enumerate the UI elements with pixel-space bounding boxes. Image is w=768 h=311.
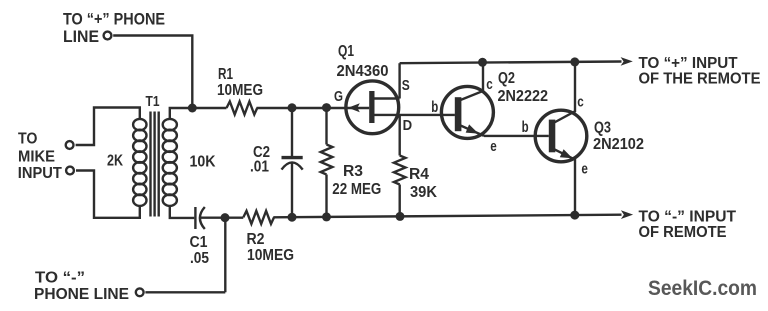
wire R1 to gate of Q1 xyxy=(257,107,370,109)
junction dot Q3 collector on top rail xyxy=(570,57,579,66)
svg-text:TO: TO xyxy=(18,131,38,148)
svg-text:e: e xyxy=(581,161,588,178)
svg-text:39K: 39K xyxy=(410,184,437,201)
svg-text:G: G xyxy=(334,89,343,105)
transformer T1 secondary winding (10K) xyxy=(163,119,177,206)
svg-text:PHONE LINE: PHONE LINE xyxy=(34,286,129,303)
label TO "+" INPUT OF THE REMOTE xyxy=(639,55,761,88)
transistor Q3 2N2102 xyxy=(522,62,644,215)
svg-text:TO “+” PHONE: TO “+” PHONE xyxy=(63,11,165,29)
gate arrow of Q1 xyxy=(348,103,360,112)
resistor R2 10MEG xyxy=(243,211,294,264)
svg-text:R4: R4 xyxy=(409,166,429,183)
Q2 emitter arrow xyxy=(466,124,479,133)
svg-text:b: b xyxy=(522,119,529,136)
junction dot R3 bottom xyxy=(322,212,331,221)
svg-text:MIKE: MIKE xyxy=(18,149,55,166)
svg-text:LINE: LINE xyxy=(63,28,99,46)
label TO "-" PHONE LINE xyxy=(34,270,129,304)
svg-text:OF REMOTE: OF REMOTE xyxy=(639,224,727,241)
wire "-" phone line riser xyxy=(224,218,226,292)
svg-text:b: b xyxy=(431,99,438,116)
bottom rail to "-" input of remote xyxy=(273,215,621,218)
wire Q2 emitter to Q3 base xyxy=(484,135,549,137)
svg-text:Q3: Q3 xyxy=(594,120,611,137)
svg-text:R3: R3 xyxy=(343,163,363,180)
Q3 emitter arrow xyxy=(560,149,573,158)
terminal mike input bottom xyxy=(66,167,74,175)
junction dot C2 top xyxy=(288,103,297,112)
Q3 emitter lead xyxy=(554,149,575,215)
junction dot Q3 emitter on bottom rail xyxy=(570,211,579,220)
svg-text:R2: R2 xyxy=(247,231,265,248)
Q2 emitter lead xyxy=(461,126,485,136)
Q1 source lead xyxy=(375,97,400,99)
svg-text:SeekIC.com: SeekIC.com xyxy=(648,277,757,300)
svg-text:2K: 2K xyxy=(107,153,124,170)
svg-text:TO “-” INPUT: TO “-” INPUT xyxy=(639,209,737,226)
wire "-" phone line horizontal xyxy=(145,291,225,293)
wire mike input top to T1 primary top xyxy=(76,108,140,146)
terminal mike input top xyxy=(66,141,74,149)
wire Q1 source to top rail xyxy=(398,63,400,98)
svg-text:2N2222: 2N2222 xyxy=(498,88,549,105)
Q2 collector lead xyxy=(461,62,484,100)
label TO MIKE INPUT xyxy=(18,131,62,183)
svg-text:D: D xyxy=(403,117,413,134)
svg-text:e: e xyxy=(490,138,497,155)
svg-text:10MEG: 10MEG xyxy=(217,82,263,99)
wire "+" phone line to top node xyxy=(113,36,192,106)
junction dot C2 bottom xyxy=(288,213,297,222)
svg-text:22 MEG: 22 MEG xyxy=(332,181,381,198)
capacitor C2 .01 xyxy=(250,108,303,218)
label TO "+" PHONE LINE xyxy=(63,11,165,47)
wire T1 secondary bottom to C1 xyxy=(170,206,195,218)
svg-text:Q1: Q1 xyxy=(338,43,354,60)
svg-text:10K: 10K xyxy=(190,154,216,171)
svg-text:S: S xyxy=(402,78,410,94)
svg-text:TO “+” INPUT: TO “+” INPUT xyxy=(639,55,738,72)
svg-text:.05: .05 xyxy=(190,250,209,267)
transformer T1 primary winding (2K) xyxy=(133,119,146,206)
arrowhead bottom rail xyxy=(621,210,633,219)
wire mike input bottom to T1 primary bottom xyxy=(76,171,140,218)
resistor R1 10MEG xyxy=(227,102,258,115)
junction dot R4 bottom xyxy=(396,212,405,221)
label TO "-" INPUT OF REMOTE xyxy=(639,209,737,242)
svg-text:c: c xyxy=(577,94,584,111)
svg-text:10MEG: 10MEG xyxy=(247,247,294,264)
Q3 collector lead xyxy=(554,62,575,123)
capacitor C1 .05 xyxy=(190,207,244,267)
svg-text:Q2: Q2 xyxy=(498,70,515,87)
transformer T1 core xyxy=(151,112,159,217)
arrowhead top rail xyxy=(621,57,633,66)
svg-text:T1: T1 xyxy=(146,94,160,110)
JFET Q1 2N4360 xyxy=(334,43,412,134)
transistor Q2 2N2222 xyxy=(431,62,548,155)
wire T1 secondary top to R1 (top node) xyxy=(170,108,227,119)
resistor R3 22MEG xyxy=(321,108,382,217)
svg-text:R1: R1 xyxy=(218,66,233,83)
top rail to "+" input of remote xyxy=(400,62,622,64)
svg-text:2N2102: 2N2102 xyxy=(593,136,644,153)
junction dot "-" phone line on bottom rail xyxy=(221,213,230,222)
terminal "-" phone line xyxy=(136,288,144,296)
svg-text:OF THE REMOTE: OF THE REMOTE xyxy=(639,71,761,88)
svg-text:c: c xyxy=(486,76,493,93)
wire drain down to R4 xyxy=(399,115,401,156)
svg-text:TO “-”: TO “-” xyxy=(35,270,85,287)
svg-text:C1: C1 xyxy=(190,234,208,251)
junction dot phone+/T1/R1 xyxy=(188,104,197,113)
junction dot R3 top xyxy=(322,103,331,112)
wire Q1 drain to Q2 base xyxy=(375,114,455,116)
junction dot Q2 collector on top rail xyxy=(478,58,487,67)
svg-text:2N4360: 2N4360 xyxy=(337,63,389,80)
terminal "+" phone line xyxy=(104,32,112,40)
svg-text:.01: .01 xyxy=(250,159,269,176)
resistor R4 39K xyxy=(394,156,438,217)
svg-text:INPUT: INPUT xyxy=(18,165,62,182)
